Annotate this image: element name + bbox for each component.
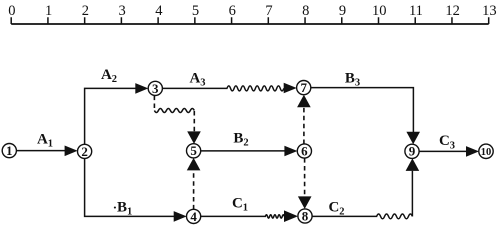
svg-text:A1: A1 xyxy=(37,132,53,150)
svg-text:C3: C3 xyxy=(439,133,455,151)
svg-text:7: 7 xyxy=(300,80,307,95)
svg-text:3: 3 xyxy=(152,81,159,96)
svg-text:C2: C2 xyxy=(328,199,344,217)
svg-text:5: 5 xyxy=(190,143,197,158)
svg-text:C1: C1 xyxy=(232,196,248,214)
svg-text:0: 0 xyxy=(8,3,15,19)
svg-text:12: 12 xyxy=(445,3,460,19)
svg-text:4: 4 xyxy=(155,3,163,19)
svg-text:6: 6 xyxy=(229,3,236,19)
svg-text:2: 2 xyxy=(82,3,89,19)
svg-text:B3: B3 xyxy=(345,71,360,89)
svg-text:1: 1 xyxy=(45,3,52,19)
svg-text:10: 10 xyxy=(372,3,387,19)
svg-text:7: 7 xyxy=(265,3,272,19)
svg-text:6: 6 xyxy=(301,143,308,158)
svg-text:8: 8 xyxy=(302,208,309,223)
svg-text:·B1: ·B1 xyxy=(113,200,133,218)
svg-text:5: 5 xyxy=(192,3,199,19)
svg-text:2: 2 xyxy=(81,144,88,159)
svg-text:A2: A2 xyxy=(101,67,117,85)
svg-text:1: 1 xyxy=(6,143,13,158)
svg-text:9: 9 xyxy=(409,144,416,159)
svg-text:A3: A3 xyxy=(189,70,205,88)
svg-text:8: 8 xyxy=(302,3,309,19)
svg-text:13: 13 xyxy=(482,3,497,19)
svg-text:B2: B2 xyxy=(233,130,248,148)
svg-text:4: 4 xyxy=(190,209,197,224)
svg-text:3: 3 xyxy=(118,3,125,19)
svg-text:9: 9 xyxy=(339,3,346,19)
svg-text:10: 10 xyxy=(481,147,492,158)
svg-text:11: 11 xyxy=(409,3,423,19)
